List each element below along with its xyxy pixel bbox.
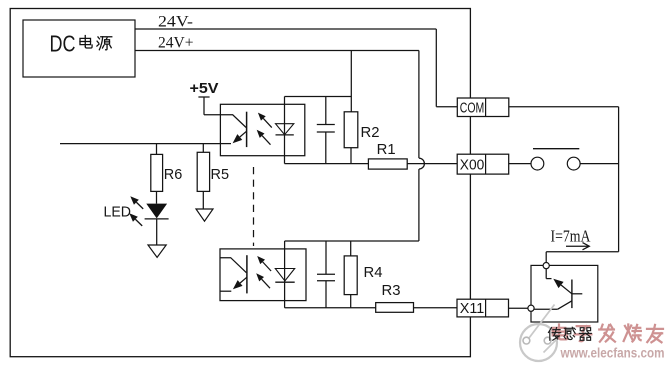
svg-text:24V+: 24V+ [158,35,194,52]
svg-text:+5V: +5V [190,80,219,97]
svg-text:X00: X00 [460,158,485,174]
svg-text:I=7mA: I=7mA [551,226,592,245]
svg-text:LED: LED [104,204,132,221]
svg-text:R3: R3 [382,282,401,299]
svg-text:DC: DC [50,31,76,57]
svg-text:COM: COM [460,100,485,116]
svg-text:R5: R5 [211,166,230,183]
svg-text:R1: R1 [377,141,396,158]
svg-text:24V-: 24V- [158,13,193,30]
svg-text:R2: R2 [361,124,380,141]
svg-text:R6: R6 [164,166,183,183]
svg-text:R4: R4 [364,264,383,281]
svg-text:X11: X11 [460,301,485,317]
svg-text:www.elecfans.com: www.elecfans.com [560,346,665,361]
